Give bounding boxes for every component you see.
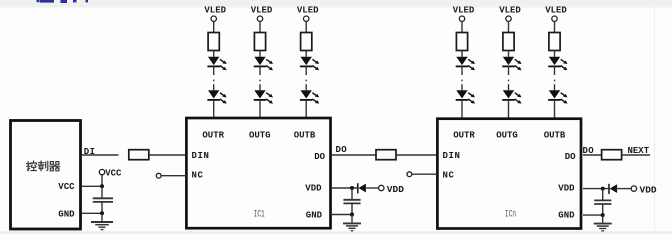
LED D-R2-n (456, 90, 475, 103)
svg-text:VDD: VDD (558, 184, 575, 194)
svg-text:VLED: VLED (453, 6, 475, 16)
svg-text:VDD: VDD (640, 185, 657, 196)
resistor R-B2 (LED current limit) (549, 33, 560, 51)
wire below LED1 (R1) (213, 66, 215, 75)
dotted continuation (more LEDs) (B2) (554, 80, 556, 82)
terminal VLED (R1) (211, 16, 216, 21)
svg-text:DIN: DIN (192, 151, 210, 161)
capacitor C0 (controller decoupling) (101, 186, 103, 198)
wire above LED2 (R2) (461, 84, 463, 90)
terminal VLED (G1) (257, 16, 262, 21)
svg-text:OUTG: OUTG (249, 131, 271, 141)
wire GND: ICn to ground (583, 214, 603, 216)
wire LED2 to IC pin (G2) (508, 100, 510, 119)
wire LED2 to IC pin (R2) (461, 100, 463, 119)
terminal VDD (ICn) (631, 186, 636, 191)
LED D-B1-n (300, 90, 319, 103)
LED D-B2-n (548, 90, 567, 103)
resistor R-B1 (LED current limit) (301, 33, 312, 51)
wire above LED2 (B2) (554, 84, 556, 90)
resistor R-DO2 (602, 150, 622, 160)
diode D-V1 (supply diode) (358, 183, 366, 193)
wire resistor to LED1 (B1) (305, 51, 307, 57)
svg-text:DO: DO (336, 145, 348, 155)
cropped blue heading text fragments (37, 0, 40, 2)
ground symbol (ICn) (602, 215, 604, 224)
svg-text:OUTR: OUTR (453, 131, 475, 141)
IC1 NC terminal circle (161, 175, 186, 177)
resistor R-DI (series data resistor) (129, 150, 149, 160)
wire diode to VDD terminal (366, 187, 379, 189)
svg-text:OUTG: OUTG (496, 131, 518, 141)
dotted continuation (more LEDs) (G1) (259, 80, 261, 82)
wire resistor to LED1 (G1) (259, 51, 261, 57)
dotted continuation (more LEDs) (G2) (508, 80, 510, 82)
wire: resistor to ICn DIN (396, 154, 437, 156)
wire resistor to LED1 (R1) (213, 51, 215, 57)
wire below LED1 (R2) (461, 66, 463, 75)
IC U1 (IC1) box (186, 118, 330, 228)
svg-text:NC: NC (443, 170, 455, 180)
junction node GND (100, 211, 104, 215)
wire below LED1 (G2) (508, 66, 510, 75)
LED D-B1-1 (300, 57, 319, 70)
svg-text:OUTR: OUTR (202, 131, 224, 141)
resistor R-R2 (LED current limit) (456, 33, 467, 51)
wire below LED1 (B1) (305, 66, 307, 75)
wire resistor to LED1 (B2) (554, 51, 556, 57)
wire LED2 to IC pin (G1) (259, 100, 261, 118)
wire VDD: IC1 to diode node (332, 187, 357, 189)
svg-text:VCC: VCC (58, 182, 75, 192)
ground symbol (controller supply) (101, 213, 103, 222)
LED D-R1-1 (207, 57, 226, 70)
resistor R-G1 (LED current limit) (254, 33, 265, 51)
junction node VCC (100, 184, 104, 188)
wire resistor to LED1 (G2) (508, 51, 510, 57)
wire LED2 to IC pin (R1) (213, 100, 215, 118)
IC U2 (ICn) box (437, 119, 581, 229)
wire VLED terminal to resistor (R2) (461, 21, 463, 32)
terminal VLED (R2) (459, 16, 464, 21)
svg-text:DO: DO (565, 152, 576, 162)
terminal VLED (B1) (304, 16, 309, 21)
wire below LED1 (G1) (259, 66, 261, 75)
LED D-R2-1 (456, 57, 475, 70)
LED D-G2-n (502, 90, 521, 103)
wire VLED terminal to resistor (G2) (508, 21, 510, 32)
LED D-G1-1 (254, 57, 273, 70)
resistor R-G2 (LED current limit) (503, 33, 514, 51)
svg-text:DIN: DIN (443, 151, 461, 161)
wire to NEXT stage (621, 154, 650, 156)
capacitor C1 (IC1 decoupling) (351, 188, 353, 200)
wire resistor to LED1 (R2) (461, 51, 463, 57)
wire DO: IC1 to series resistor (332, 154, 376, 156)
wire below LED1 (B2) (554, 66, 556, 75)
wire: resistor to IC1 DIN (149, 154, 186, 156)
wire DI: controller to series resistor (82, 154, 119, 156)
LED D-R1-n (207, 90, 226, 103)
svg-text:VDD: VDD (387, 184, 404, 195)
dotted continuation (more LEDs) (R1) (213, 80, 215, 82)
controller box U0 (labelled 控制器) (11, 121, 81, 230)
wire GND: controller to ground (82, 212, 103, 214)
wire LED2 to IC pin (B1) (305, 100, 307, 118)
svg-text:VLED: VLED (204, 6, 226, 16)
resistor R-R1 (LED current limit) (208, 33, 219, 51)
junction node VDD1 (350, 186, 354, 190)
svg-text:VDD: VDD (305, 184, 322, 194)
terminal VDD (IC1) (379, 185, 384, 190)
wire VDD: ICn to diode node (583, 188, 608, 190)
wire above LED2 (G2) (508, 84, 510, 90)
dotted continuation (more LEDs) (R2) (461, 80, 463, 82)
wire above LED2 (B1) (305, 84, 307, 90)
svg-text:OUTB: OUTB (544, 131, 566, 141)
svg-text:NC: NC (192, 170, 204, 180)
wire VCC: controller to decoupling node (82, 185, 103, 187)
svg-text:VCC: VCC (105, 169, 122, 179)
wire LED2 to IC pin (B2) (554, 100, 556, 119)
wire GND: IC1 to ground (332, 214, 352, 216)
junction node GND1 (350, 213, 354, 217)
terminal VLED (B2) (552, 16, 557, 21)
junction node GND2 (601, 213, 605, 217)
wire above LED2 (G1) (259, 84, 261, 90)
svg-text:DO: DO (314, 152, 325, 162)
svg-text:VLED: VLED (251, 6, 273, 16)
label 控制器 inside controller (27, 161, 60, 171)
resistor R-DO1 (376, 150, 396, 160)
svg-text:GND: GND (558, 211, 575, 221)
svg-text:OUTB: OUTB (294, 131, 316, 141)
svg-text:NEXT: NEXT (628, 146, 650, 156)
svg-text:IC1: IC1 (254, 209, 265, 220)
wire VLED terminal to resistor (B1) (305, 21, 307, 32)
wire diode to VDD terminal (617, 188, 631, 190)
wire DO: ICn to series resistor (583, 154, 602, 156)
wire VLED terminal to resistor (R1) (213, 21, 215, 32)
svg-text:VLED: VLED (499, 6, 521, 16)
svg-text:ICn: ICn (505, 209, 516, 220)
capacitor C2 (ICn decoupling) (602, 189, 604, 201)
diode D-V2 (supply diode) (609, 184, 617, 194)
LED D-B2-1 (548, 57, 567, 70)
dotted continuation (more LEDs) (B1) (305, 80, 307, 82)
wire VLED terminal to resistor (G1) (259, 21, 261, 32)
LED D-G1-n (254, 90, 273, 103)
wire above LED2 (R1) (213, 84, 215, 90)
svg-text:GND: GND (306, 211, 323, 221)
svg-text:VLED: VLED (545, 6, 567, 16)
svg-text:GND: GND (58, 209, 75, 219)
junction node VDD2 (601, 187, 605, 191)
wire VLED terminal to resistor (B2) (554, 21, 556, 32)
terminal VLED (G2) (506, 16, 511, 21)
ICn NC terminal circle (412, 173, 437, 175)
svg-text:VLED: VLED (297, 6, 319, 16)
LED D-G2-1 (502, 57, 521, 70)
terminal VCC (circle) (101, 175, 103, 187)
ground symbol (IC1) (351, 215, 353, 224)
